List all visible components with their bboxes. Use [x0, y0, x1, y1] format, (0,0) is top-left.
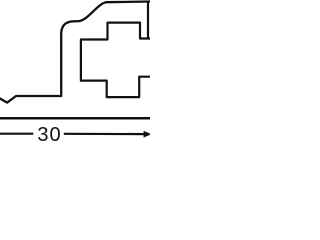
svg-text:30: 30 [37, 124, 61, 146]
